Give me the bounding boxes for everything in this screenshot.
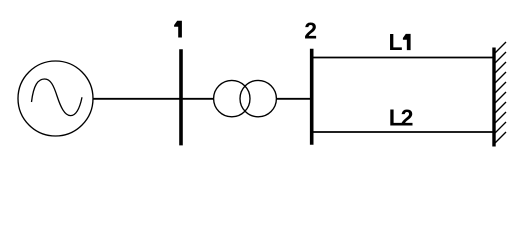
svg-text:2: 2	[401, 105, 414, 131]
transmission line L1	[313, 57, 492, 59]
bus 2	[310, 49, 314, 145]
svg-text:2: 2	[304, 18, 317, 44]
wire generator to bus 1	[93, 98, 181, 100]
transformer T1	[214, 80, 277, 116]
transmission line L2	[313, 131, 492, 133]
generator G1	[18, 61, 93, 136]
bus label 1	[174, 21, 182, 38]
wire transformer to bus 2	[276, 98, 311, 100]
bus 1	[179, 49, 183, 145]
wire bus 1 to transformer	[181, 98, 214, 100]
svg-text:L: L	[389, 29, 403, 55]
infinite bus wall	[492, 48, 495, 147]
wall hatching	[495, 42, 506, 143]
